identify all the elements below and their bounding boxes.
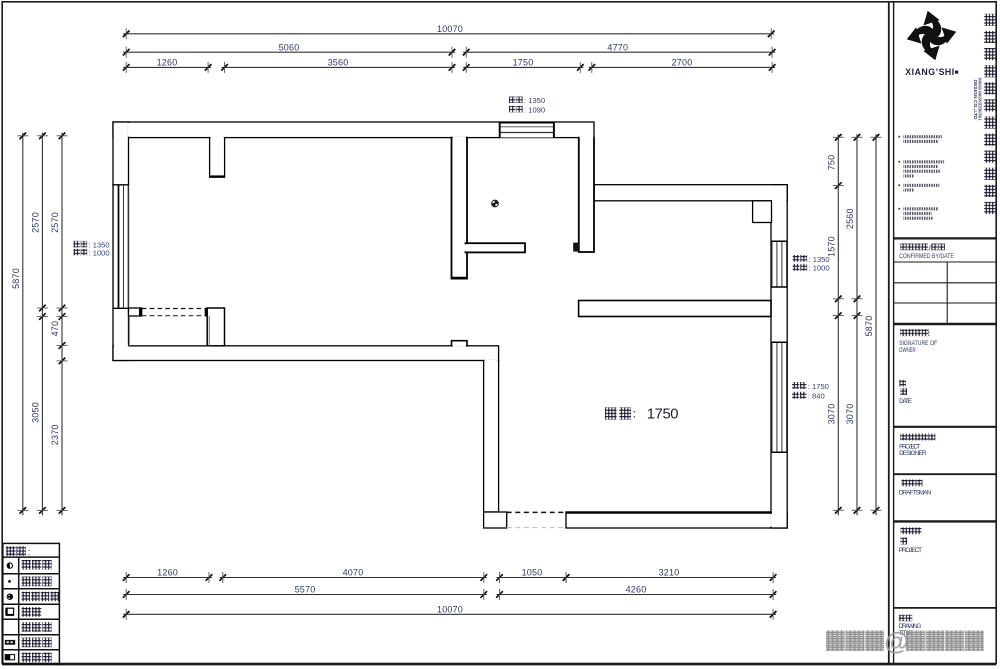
annotation right upper window sill heights	[793, 255, 830, 273]
dimension top 3560	[221, 58, 455, 73]
notes paragraphs	[898, 135, 944, 220]
wall: lower-left vertical wall	[484, 361, 499, 513]
label 业主签名 SIGNATURE OF OWNER	[899, 329, 937, 354]
dimension bottom 4260	[496, 585, 776, 600]
dimension chain left 2570/470/2370	[50, 133, 67, 516]
legend icon toilet pipe	[7, 594, 12, 599]
svg-text:: 1000: : 1000	[809, 264, 830, 273]
svg-text:1750: 1750	[513, 58, 534, 68]
svg-text:5870: 5870	[864, 316, 874, 337]
floor drain symbol	[492, 200, 499, 207]
svg-text:4260: 4260	[626, 585, 647, 595]
dimension bottom 4070	[220, 568, 488, 583]
dashed opening: closet pass-through top line	[142, 308, 205, 310]
wall: lower-left wall foot	[484, 512, 507, 528]
wall: step wall / middle room right wall	[579, 138, 594, 252]
dimension top 5060	[123, 42, 455, 57]
svg-text:: 840: : 840	[808, 392, 825, 401]
dimension chain right 750/1570/3070	[826, 134, 844, 515]
svg-text:1260: 1260	[157, 58, 178, 68]
svg-text:DATE: DATE	[899, 398, 912, 405]
wall stub: black stub left of closet opening	[139, 308, 142, 317]
legend label 弱电箱	[22, 638, 52, 648]
watermark 土巴兔@祥饰装饰	[826, 628, 984, 656]
dimension bottom overall 10070	[123, 605, 777, 620]
svg-text:1050: 1050	[522, 568, 543, 578]
svg-text:3050: 3050	[31, 402, 41, 423]
wall stub: black stub right of closet opening	[205, 308, 208, 317]
dimension top 1750	[463, 58, 584, 73]
svg-text:2570: 2570	[50, 212, 60, 233]
thick edge: top of lower-room bottom wall	[566, 511, 772, 513]
wall: bottom wall of lower-right room	[566, 512, 787, 528]
svg-text:4070: 4070	[343, 568, 364, 578]
svg-text:3210: 3210	[659, 568, 680, 578]
svg-text::: :	[28, 547, 31, 558]
wall: middle room bottom wall	[466, 243, 526, 252]
column: stub on top wall	[210, 138, 225, 178]
window W4: right wall lower window	[771, 342, 787, 452]
dashed opening: entry door bottom line	[507, 527, 566, 529]
svg-text:5870: 5870	[11, 268, 21, 289]
svg-text:1260: 1260	[157, 568, 178, 578]
svg-text:: 1090: : 1090	[524, 105, 545, 114]
window W1: left wall window	[112, 185, 128, 308]
svg-text:@: @	[885, 628, 909, 656]
dimension top 4770	[463, 42, 776, 57]
svg-text:470: 470	[50, 321, 60, 337]
legend icon flue	[6, 608, 13, 615]
svg-text:OWNER: OWNER	[899, 347, 916, 354]
svg-text:2570: 2570	[31, 212, 41, 233]
legend label 消防栓	[22, 653, 52, 663]
legend label 烟道	[22, 607, 42, 617]
legend header 图例:	[6, 546, 30, 558]
svg-text:5570: 5570	[295, 585, 316, 595]
svg-text:: 1750: : 1750	[808, 382, 829, 391]
alcove: entry closet thin outline	[129, 316, 209, 347]
legend table box	[3, 543, 60, 663]
label 工种会签/日期 CONFIRMED BY/DATE	[899, 243, 954, 260]
wall: interior wall of right section	[579, 301, 771, 317]
thick edge: bottom of top column stub	[210, 175, 225, 177]
label 图名 DRAWING TITLE	[899, 615, 922, 637]
svg-text:DESIGN CO.,LTD: DESIGN CO.,LTD	[973, 80, 978, 121]
svg-text:SIGNATURE OF: SIGNATURE OF	[899, 340, 937, 347]
label 绘图员 DRAFTSMAN	[899, 480, 932, 497]
dimension chain right overall 5870	[864, 134, 882, 515]
svg-text:: 1350: : 1350	[524, 96, 545, 105]
wall: top exterior wall (right section)	[594, 185, 787, 201]
svg-text:CONFIRMED BY/DATE: CONFIRMED BY/DATE	[899, 253, 954, 260]
svg-text:10070: 10070	[437, 605, 463, 615]
svg-text:: 1000: : 1000	[89, 248, 110, 257]
wall: middle room left wall	[452, 138, 468, 279]
svg-text:: 1350: : 1350	[809, 255, 830, 264]
window W2: top wall window	[499, 122, 555, 138]
svg-text:DRAFTSMAN: DRAFTSMAN	[899, 490, 932, 497]
title block borders	[889, 2, 996, 664]
dimension bottom 1050	[496, 568, 569, 583]
dimension top 2700	[589, 58, 776, 73]
dimension top overall 10070	[123, 24, 775, 39]
svg-text:750: 750	[826, 155, 836, 171]
svg-text:2700: 2700	[672, 58, 693, 68]
svg-text:10070: 10070	[437, 24, 463, 34]
wall: bottom wall of upper-left section	[113, 346, 499, 361]
svg-text:PROJECT: PROJECT	[899, 547, 922, 554]
svg-text::: :	[928, 331, 930, 338]
wall: right exterior wall	[771, 185, 787, 528]
svg-text::: :	[633, 407, 636, 421]
legend label 马桶落管	[22, 592, 59, 602]
legend icon gas pipe	[8, 580, 11, 583]
label 项目名称 PROJECT	[899, 527, 922, 554]
wall: chunk right of entry closet	[207, 308, 224, 346]
dimension chain right 2560/3070	[845, 134, 863, 515]
legend label 煤气管	[22, 577, 52, 587]
svg-text:2370: 2370	[50, 424, 60, 445]
svg-text:4770: 4770	[607, 42, 628, 52]
wall: top exterior wall (upper-left section)	[113, 122, 594, 138]
svg-text:3070: 3070	[826, 404, 836, 425]
label 日期 DATE	[899, 380, 912, 405]
wall stub: black notch at middle room door	[573, 243, 579, 252]
dashed opening: closet pass-through bottom line	[142, 315, 205, 317]
legend icon weak current box	[5, 640, 15, 645]
dimension top 1260	[123, 58, 211, 73]
vertical company name 上海祥饰装饰设计有限公司	[984, 14, 995, 214]
legend label 强电箱	[22, 622, 52, 632]
junction patches (open wall joints)	[114, 123, 787, 527]
svg-text:5060: 5060	[279, 42, 300, 52]
svg-text:DESIGNER: DESIGNER	[899, 450, 927, 457]
svg-text:3560: 3560	[328, 58, 349, 68]
svg-text:1750: 1750	[647, 407, 678, 423]
dimension bottom 3210	[563, 568, 777, 583]
svg-text:2560: 2560	[845, 208, 855, 229]
svg-text:/: /	[929, 243, 932, 252]
label 主案设计师 PROJECT DESIGNER	[899, 434, 935, 458]
legend icon sewer pipe	[7, 563, 12, 568]
annotation top window sill heights	[509, 96, 545, 114]
end cap: middle room left wall bottom	[451, 277, 468, 279]
legend label 下水管	[22, 560, 52, 570]
patch: open joint between top wall and step wall	[580, 137, 594, 139]
text ceiling height 层高 1750	[605, 407, 678, 423]
svg-text:XIANG’SHI: XIANG’SHI	[905, 67, 954, 77]
dimension bottom 5570	[123, 585, 487, 600]
wall: small extension below left window	[129, 308, 142, 316]
dimension chain left 2570/3050	[31, 133, 48, 516]
svg-text:3070: 3070	[845, 404, 855, 425]
legend icon fire hydrant	[5, 655, 14, 660]
annotation right lower window sill heights	[792, 382, 829, 401]
dashed opening: entry door top line	[507, 511, 566, 513]
wall: middle room left wall bottom stub	[452, 341, 468, 346]
annotation left window sill heights	[74, 240, 110, 257]
dimension bottom 1260	[123, 568, 212, 583]
window W3: right wall upper window	[771, 241, 787, 287]
column: top-right corner column	[753, 201, 772, 223]
wall: left exterior wall	[113, 122, 129, 361]
logo pinwheel XIANG SHI	[902, 6, 961, 65]
dimension chain left overall 5870	[11, 133, 28, 516]
